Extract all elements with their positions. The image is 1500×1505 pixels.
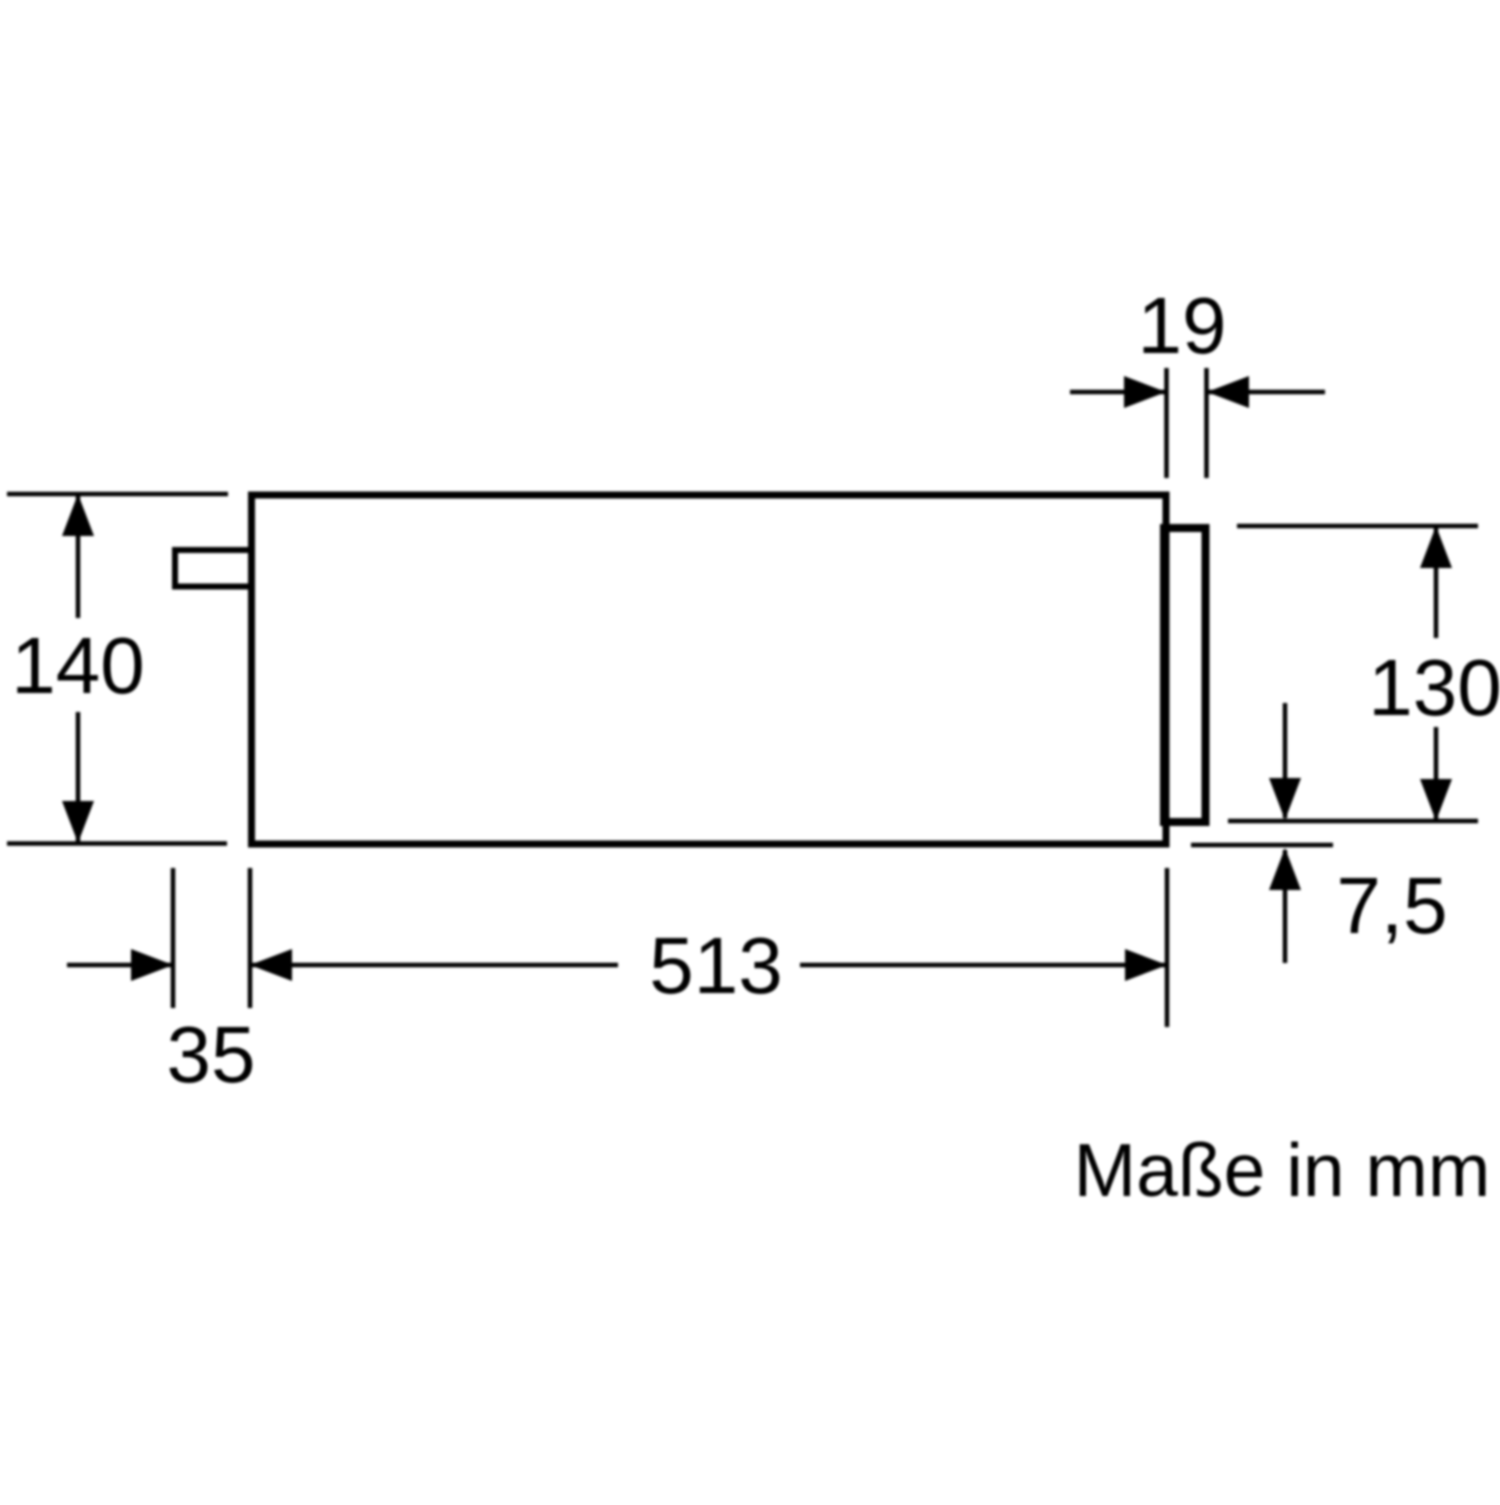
svg-text:19: 19 bbox=[1138, 281, 1227, 370]
svg-text:7,5: 7,5 bbox=[1336, 861, 1447, 950]
svg-text:140: 140 bbox=[11, 621, 144, 710]
svg-text:513: 513 bbox=[649, 921, 782, 1010]
svg-text:130: 130 bbox=[1368, 643, 1500, 732]
svg-text:Maße in mm: Maße in mm bbox=[1074, 1128, 1491, 1212]
svg-text:35: 35 bbox=[167, 1010, 256, 1099]
